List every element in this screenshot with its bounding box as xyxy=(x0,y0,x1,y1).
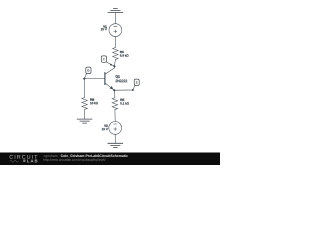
value label 6.9 kOhm (RC) xyxy=(120,54,128,56)
voltage source V1 xyxy=(109,24,122,37)
label RB xyxy=(90,99,94,101)
label V1 xyxy=(103,26,107,28)
resistor RC xyxy=(113,48,119,60)
wire (emitter node to RE) xyxy=(113,90,116,97)
value label 15 V (V2) xyxy=(102,128,108,130)
wire (B node down to RB) xyxy=(83,79,85,98)
node E flag xyxy=(132,79,139,91)
footer logo CIRCUIT LAB xyxy=(10,155,38,162)
transistor Q1 2N2222 xyxy=(105,66,115,90)
value label 15 V (V1) xyxy=(101,28,107,30)
node C junction dot xyxy=(113,65,115,67)
node B flag xyxy=(84,67,91,79)
node B junction dot xyxy=(83,78,85,80)
wire (emitter node to E flag) xyxy=(114,89,133,91)
footer text line 1 xyxy=(44,154,60,157)
footer text line 2 (url) xyxy=(44,159,106,162)
label RE xyxy=(120,99,124,101)
part number label 2N2222 (Q1) xyxy=(116,80,128,82)
ground (below V2) xyxy=(108,143,123,147)
wire (RB to ground) xyxy=(84,109,86,119)
resistor RB xyxy=(82,98,88,110)
voltage source V2 xyxy=(109,122,122,135)
wire (RE to V2) xyxy=(114,109,116,121)
resistor RE xyxy=(112,98,118,110)
label V2 xyxy=(104,125,108,127)
value label 5.1 kOhm (RE) xyxy=(120,102,129,104)
node C flag xyxy=(101,56,114,66)
label RC xyxy=(120,51,124,53)
ground (top, inverted, at V1 negative terminal) xyxy=(108,9,123,13)
wire (base wire to Q1) xyxy=(84,78,105,80)
wire (RC to collector node) xyxy=(114,60,115,67)
footer bar xyxy=(0,153,220,166)
ground (below RB) xyxy=(77,119,92,123)
wire (top ground to V1) xyxy=(114,13,116,24)
node E junction dot xyxy=(113,89,115,91)
value label 10 kOhm (RB) xyxy=(90,102,98,104)
wire (V1 to RC) xyxy=(114,37,116,48)
wire (V2 to ground) xyxy=(114,134,116,143)
label Q1 xyxy=(116,75,120,78)
